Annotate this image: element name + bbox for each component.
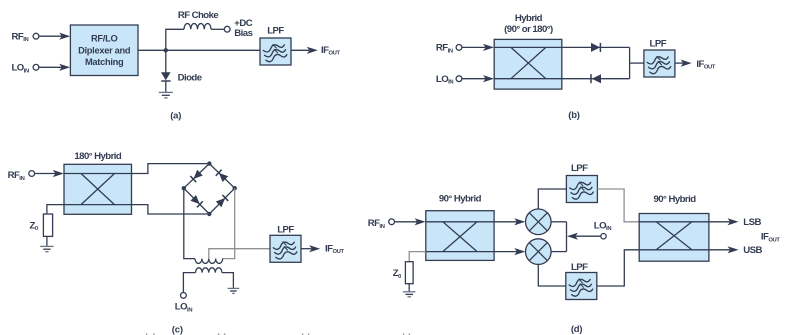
filter LPF (b) xyxy=(644,50,675,77)
svg-text:90° Hybrid: 90° Hybrid xyxy=(439,193,482,204)
wire LO_IN to diplexer (a) xyxy=(39,64,70,71)
svg-text:Matching: Matching xyxy=(85,57,124,67)
block RF/LO Diplexer and Matching (a) xyxy=(70,25,138,76)
ground transformer (c) xyxy=(228,288,240,293)
hybrid coupler block (b) xyxy=(494,39,562,89)
wire LPF to IF_OUT (c) xyxy=(301,245,320,252)
wire hybrid top output to ring top (c) xyxy=(132,164,208,174)
wire choke to bias terminal (a) xyxy=(211,28,224,30)
cropped caption glyph tops at bottom edge xyxy=(147,334,410,335)
wire center tap to LPF (c) xyxy=(209,249,270,259)
terminal RF_IN (c) xyxy=(29,171,35,177)
svg-text:LPF: LPF xyxy=(267,25,284,36)
wire LPF to IF_OUT (a) xyxy=(291,47,318,54)
diode ring bottom-left (c) xyxy=(190,195,203,208)
terminal LO_IN (a) xyxy=(33,64,39,70)
wire secondary to ground (c) xyxy=(222,273,234,288)
mixer M2 (d) xyxy=(526,239,552,265)
terminal RF_IN (b) xyxy=(456,45,462,51)
wire LO_IN arrow (d) xyxy=(567,233,601,240)
wire USB output (d) xyxy=(709,246,739,253)
wire summing connector (b) xyxy=(629,47,631,78)
wire diplexer output to LPF (a) xyxy=(138,49,260,51)
svg-text:Diode: Diode xyxy=(178,73,202,84)
diode ring top-left (c) xyxy=(190,170,203,183)
wire to LPF (b) xyxy=(630,62,644,64)
wire junction up to choke (a) xyxy=(166,29,184,50)
wire ring right node to transformer primary (c) xyxy=(222,188,234,258)
wire ring left node to transformer primary (c) xyxy=(184,188,195,258)
svg-text:(c): (c) xyxy=(172,324,183,335)
wire hybrid1 to mixer1 (d) xyxy=(494,218,525,225)
label Hybrid (90 or 180) (b) xyxy=(504,13,553,35)
svg-text:(b): (b) xyxy=(568,110,580,121)
filter LPF (a) xyxy=(260,38,291,65)
svg-text:(a): (a) xyxy=(170,110,181,121)
filter LPF (c) xyxy=(270,235,301,262)
junction node (a) xyxy=(164,48,168,52)
diode ring top-right (c) xyxy=(216,170,229,183)
terminal LO_IN (b) xyxy=(456,76,462,82)
svg-text:(d): (d) xyxy=(571,324,583,335)
wire hybrid bottom output (b) xyxy=(562,78,630,80)
wire RF_IN to hybrid (b) xyxy=(462,44,494,51)
filter LPF top (d) xyxy=(566,176,597,203)
svg-text:180° Hybrid: 180° Hybrid xyxy=(74,151,122,162)
wire RF_IN to hybrid (c) xyxy=(35,170,64,177)
svg-text:RF Choke: RF Choke xyxy=(178,10,219,21)
wire diode to ground (a) xyxy=(165,81,167,92)
transformer primary winding (c) xyxy=(195,259,223,264)
ground (a) xyxy=(159,92,173,98)
hybrid coupler 90 block 2 (d) xyxy=(639,214,709,262)
hybrid coupler 90 block 1 (d) xyxy=(426,211,494,261)
wire hybrid top output (b) xyxy=(562,46,630,48)
filter LPF bottom (d) xyxy=(566,273,597,300)
wire LO_IN to hybrid (b) xyxy=(462,75,494,82)
svg-text:Hybrid: Hybrid xyxy=(515,13,543,24)
terminal LO_IN (c) xyxy=(181,293,187,299)
terminal RF_IN (d) xyxy=(389,219,395,225)
wire RF_IN to hybrid1 (d) xyxy=(395,218,426,225)
svg-text:LPF: LPF xyxy=(277,224,294,235)
diode ring bottom-right (c) xyxy=(216,195,229,208)
wire top LPF to hybrid2 (d) xyxy=(597,189,639,222)
wire LPF to IF_OUT (b) xyxy=(675,60,692,67)
wire RF_IN to diplexer (a) xyxy=(39,33,70,40)
svg-text:LPF: LPF xyxy=(571,163,588,174)
wire LSB output (d) xyxy=(709,218,739,225)
diode ring edges (c) xyxy=(184,164,235,214)
label +DC Bias (a) xyxy=(234,18,252,39)
wire hybrid to Z0 (c) xyxy=(47,205,64,214)
ground below Z0 (d) xyxy=(403,292,416,297)
wire hybrid1 to Z0 (d) xyxy=(409,252,426,262)
wire Z0 to ground (c) xyxy=(46,236,48,246)
wire Z0 to ground (d) xyxy=(408,284,410,292)
wire mixer1 to top LPF (d) xyxy=(538,189,566,209)
mixer M1 (d) xyxy=(526,209,552,235)
diode D1 (a) xyxy=(161,72,171,81)
svg-text:Diplexer and: Diplexer and xyxy=(78,46,131,56)
wire bottom LPF to hybrid2 (d) xyxy=(597,250,639,286)
resistor Z0 (d) xyxy=(405,262,413,284)
wire secondary to LO terminal (c) xyxy=(183,273,195,293)
wire hybrid1 to mixer2 (d) xyxy=(494,248,525,255)
resistor Z0 (c) xyxy=(43,214,52,236)
diode D3 (b) xyxy=(591,74,601,83)
diode D2 (b) xyxy=(591,43,600,52)
svg-text:RF/LO: RF/LO xyxy=(91,34,117,44)
wire mixer2 to bottom LPF (d) xyxy=(538,264,566,286)
svg-text:Bias: Bias xyxy=(234,28,252,39)
svg-text:LSB: LSB xyxy=(743,217,761,228)
svg-text:LPF: LPF xyxy=(571,262,588,273)
inductor RF Choke (a) xyxy=(184,23,211,29)
transformer secondary winding (c) xyxy=(195,268,221,273)
terminal +DC Bias (a) xyxy=(224,26,230,32)
terminal LO_IN (d) xyxy=(601,234,606,239)
wire hybrid bottom output to ring bottom (c) xyxy=(132,205,208,214)
svg-text:90° Hybrid: 90° Hybrid xyxy=(653,194,696,205)
wire junction down to diode (a) xyxy=(165,50,167,72)
wire LO distribution (d) xyxy=(551,222,566,252)
svg-text:USB: USB xyxy=(743,245,762,256)
svg-text:LPF: LPF xyxy=(650,38,667,49)
svg-text:(90° or 180°): (90° or 180°) xyxy=(504,24,553,35)
ground below Z0 (c) xyxy=(40,246,53,251)
ring node dots (c) xyxy=(182,161,237,216)
hybrid coupler 180 block (c) xyxy=(64,164,132,214)
terminal RF_IN (a) xyxy=(33,33,39,39)
